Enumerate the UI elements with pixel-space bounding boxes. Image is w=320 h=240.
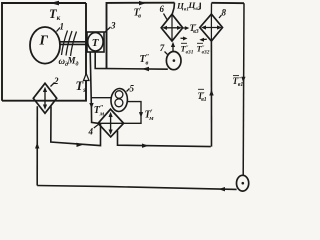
wire fan 7 to heat exchanger 6 bbox=[172, 44, 174, 52]
flow arrow Tв3' out of heat exchanger 6 bbox=[183, 26, 189, 30]
coupling arcs over shaft bbox=[62, 31, 77, 57]
wire pump 5 outlet to radiator 4 right port bbox=[124, 102, 141, 124]
heat exchanger 6 (diamond) bbox=[161, 14, 183, 41]
wire top edge to heat exchanger 8 bbox=[210, 3, 212, 14]
shaft (double line generator to turbine) bbox=[60, 42, 87, 45]
wire turbine outlet to fan 7 (air duct) bbox=[95, 52, 168, 69]
label Tв31'' with overbar bbox=[181, 43, 194, 55]
flow arrow (left) on bottom return bus bbox=[219, 187, 226, 191]
svg-text:3: 3 bbox=[110, 21, 116, 31]
pointer line of callout 6 bbox=[164, 14, 168, 20]
pointer line of callout 8 bbox=[219, 15, 222, 18]
svg-text:Γ: Γ bbox=[39, 34, 49, 49]
wire heat exchanger 2 to bottom return bus bbox=[36, 106, 38, 185]
stray pen stroke after label Цв2 bbox=[199, 3, 201, 10]
wire turbine to radiator 4 left port (oil line) bbox=[90, 52, 98, 123]
turbine U3 (box with inscribed circle) bbox=[87, 32, 104, 52]
wire riser heat exchanger 8 down to lower path bbox=[210, 41, 212, 147]
ram air duct top wire (left segment, ends at riser of HE 6) bbox=[107, 3, 175, 69]
flow arrow Tв' (right) on duct top wire bbox=[139, 1, 146, 6]
through wire of heat exchanger 8 bbox=[210, 14, 212, 41]
heat exchanger 2 (diamond in cabin floor) bbox=[33, 83, 56, 113]
ram air duct top wire (right segment, from riser of HE 8) bbox=[211, 2, 244, 4]
flow arrow (up) on that wire bbox=[35, 143, 39, 149]
double-headed arrow in heat exchanger 2 bbox=[43, 87, 47, 110]
flow arrow Tв1'' (down) on right wire bbox=[241, 77, 245, 83]
wire duct right edge down to fan 9 bbox=[242, 3, 245, 175]
through wire of heat exchanger 6 bbox=[171, 14, 173, 41]
svg-text:5: 5 bbox=[130, 84, 135, 94]
flow arrow Tв32'' below heat exchanger 8 (pointing left) bbox=[199, 38, 206, 42]
svg-text:8: 8 bbox=[222, 8, 227, 18]
svg-text:6: 6 bbox=[160, 4, 165, 14]
wire top edge to heat exchanger 6 bbox=[172, 3, 174, 15]
through wire of radiator 4 bbox=[98, 122, 124, 124]
double-headed arrow in heat exchanger 6 bbox=[162, 26, 182, 30]
label Tв1'' with overbar bbox=[233, 76, 244, 89]
flow arrow (right) on lower path bbox=[77, 143, 84, 147]
flow arrow Tм' (down) on that wire bbox=[139, 112, 143, 117]
generator G1 (circle) bbox=[30, 27, 60, 64]
svg-text:T″в: T″в bbox=[140, 53, 150, 67]
svg-text:4: 4 bbox=[88, 127, 94, 137]
fan 7 (circle with hub dot) bbox=[166, 52, 181, 70]
flow arrow Tв1' (up) on riser bbox=[209, 90, 213, 96]
flow arrow Tв31'' below heat exchanger 6 bbox=[181, 37, 188, 41]
pointer line of callout 7 bbox=[165, 52, 168, 55]
wire radiator 4 to riser of heat exchanger 8 bbox=[118, 131, 211, 147]
pointer line of callout 2 bbox=[51, 83, 55, 87]
flow arrow Ts on cabin right wire (open triangle) bbox=[84, 74, 90, 81]
svg-text:7: 7 bbox=[160, 43, 165, 53]
flow arrow (right) on that wire bbox=[142, 144, 149, 148]
flow arrow Tв'' (left) on that wire bbox=[142, 67, 149, 72]
double-headed arrow in heat exchanger 8 bbox=[201, 25, 222, 29]
pointer line of callout 4 bbox=[94, 123, 101, 128]
flow arrow Tк on cabin top wire bbox=[50, 1, 59, 6]
pointer line of callout 3 bbox=[105, 27, 111, 33]
pointer line of callout 5 bbox=[127, 89, 130, 92]
flow arrow (up) on that wire bbox=[171, 42, 175, 47]
svg-text:T″м: T″м bbox=[94, 104, 105, 118]
label Tв1' with overbar bbox=[198, 89, 207, 103]
cabin enclosure box bbox=[2, 3, 86, 101]
pointer line of callout 1 bbox=[57, 28, 61, 32]
svg-text:1: 1 bbox=[60, 22, 65, 32]
wire oil line to pump 5 inlet bbox=[92, 97, 112, 99]
svg-text:T′в: T′в bbox=[134, 6, 142, 20]
wire heat exchanger 2 to radiator 4 (lower path) bbox=[51, 106, 101, 145]
heat exchanger 8 (diamond) bbox=[200, 14, 223, 41]
wire bottom return bus (fan 9 to heat exchanger 2) bbox=[37, 186, 236, 190]
flow arrow Tм'' (down) on oil line bbox=[89, 103, 93, 109]
oil pump 5 (oval with two rotors) bbox=[110, 88, 128, 112]
fan 9 (circle with hub dot, bottom right) bbox=[237, 175, 249, 191]
double-headed arrow in radiator 4 bbox=[109, 112, 113, 135]
label Tв32'' with overbar bbox=[197, 43, 210, 55]
svg-text:2: 2 bbox=[53, 76, 59, 86]
oil radiator 4 (diamond) bbox=[98, 109, 124, 137]
